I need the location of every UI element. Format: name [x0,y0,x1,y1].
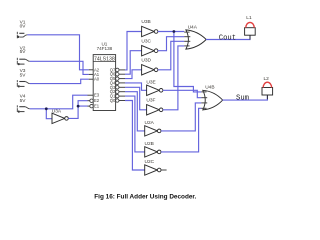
svg-text:U3B: U3B [141,19,150,25]
svg-text:U2B: U2B [145,141,154,147]
svg-text:L2: L2 [264,76,270,82]
unconnected stub on U2C output [161,169,167,171]
svg-text:U2C: U2C [145,159,155,165]
lamp L2 [262,82,273,99]
pin Q4 with bubble [110,80,125,85]
svg-text:E1: E1 [94,104,100,109]
wire U3B branch to U4B input1 [174,32,201,92]
pin A1 [89,72,100,77]
voltage source V4 [17,105,30,112]
wire Q2 to U2A [125,92,145,131]
inverter U2B [145,147,161,157]
svg-text:Fig 16: Full Adder Using Decod: Fig 16: Full Adder Using Decoder. [94,193,196,200]
svg-text:U3D: U3D [141,58,151,64]
pin A0 [89,77,100,82]
pin Q7 with bubble [110,67,125,72]
pin Q0 with bubble [110,98,125,103]
svg-text:U2A: U2A [145,120,155,126]
voltage source V1 label [20,19,27,29]
voltage source V1 [17,32,27,39]
wire Q5 to U3D [125,70,142,79]
inverter U3C [142,46,158,56]
wire U3B to U4A input1 [158,31,184,33]
svg-text:5V: 5V [20,49,27,55]
OR gate U4B [201,90,222,110]
inverter U3D [142,65,158,75]
wire U3E to U4B input2 [163,90,201,97]
wire U3A output branch to E2 [78,101,87,106]
wire Q1 to U2B [125,96,145,152]
junction node on U3B output [173,30,176,33]
svg-text:L1: L1 [246,15,252,21]
svg-text:U4B: U4B [205,85,214,91]
inverter U2C [145,165,161,175]
svg-text:5V: 5V [20,72,27,78]
wire V2 to A1 [30,61,89,74]
wire Q7 to U3B [125,32,142,70]
pin Q6 with bubble [110,72,125,77]
lamp L1 [245,22,256,39]
voltage source V3 [17,80,30,87]
inverter U3A [52,113,68,123]
pin E2 with bubble [88,98,100,103]
pin E3 [88,93,100,98]
decoder U1 74LS138 body [93,55,115,111]
wire V1 to A2 [27,35,88,70]
wire U3D to U4A input3 [158,41,184,70]
svg-text:5V: 5V [20,98,27,104]
pin Q1 with bubble [110,94,125,99]
wire U3C to U4A input2 [158,37,184,51]
svg-text:0V: 0V [20,23,27,29]
voltage source V2 [17,58,30,65]
svg-text:U4A: U4A [188,24,198,30]
svg-text:E3: E3 [94,93,100,98]
pin Q5 with bubble [110,76,125,81]
pin A2 [89,67,100,72]
wire U4A output to lamp L1 [206,35,250,39]
inverter U2A [145,126,161,136]
svg-text:E2: E2 [94,98,100,103]
OR gate U4A [184,30,206,49]
pin E1 with bubble [88,104,100,109]
wire V3 to A0 [30,79,89,83]
junction node on E1 wire [77,105,80,108]
wire Q6 to U3C [125,51,142,74]
voltage source V4 label [20,93,27,104]
decoder U1 label [97,41,113,51]
inverter U3F [147,105,163,115]
wire Q3 to U3F [125,87,147,110]
wire U2B to U4B input4 [161,108,201,152]
wire U3A output to E1 [68,106,87,118]
wire U2A to U4B input3 [161,103,201,131]
wire Q4 to U3E [125,83,147,90]
pin Q2 with bubble [110,89,125,94]
wire V4 branch to U3A input [46,109,52,119]
svg-text:U3F: U3F [146,98,155,104]
pin Q3 with bubble [110,85,125,90]
svg-text:Cout: Cout [219,34,236,42]
junction node on V4 wire [45,107,48,110]
svg-text:U3C: U3C [141,38,151,44]
svg-text:U3E: U3E [146,80,155,86]
svg-text:Sum: Sum [236,94,249,102]
voltage source V3 label [20,68,27,78]
svg-text:Q0: Q0 [110,98,116,103]
inverter U3B [142,26,158,36]
inverter U3E [147,85,163,95]
wire U3F to U4A input4 [163,46,184,110]
wire V4 to E3 [30,95,88,109]
svg-text:74F138: 74F138 [97,46,113,51]
voltage source V2 label [20,45,27,55]
svg-text:A0: A0 [94,77,100,82]
wire Q0 to U2C [125,101,145,171]
wire U4B output to lamp L2 [223,95,268,100]
